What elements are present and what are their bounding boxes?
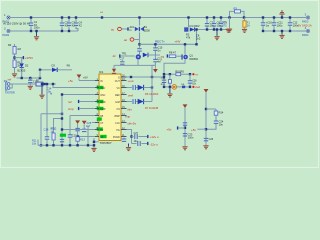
capacitor C10 (bulk out) <box>261 16 273 32</box>
diode D4 <box>143 53 160 58</box>
resistor R5 <box>13 60 23 73</box>
svg-text:SS: SS <box>100 136 104 139</box>
svg-text:ac: ac <box>124 38 128 42</box>
svg-text:C17: C17 <box>120 58 125 61</box>
capacitor C2 <box>60 16 69 32</box>
svg-text:C18: C18 <box>44 127 49 131</box>
svg-text:IC1: IC1 <box>99 70 104 74</box>
LED (orange circle) <box>172 85 177 90</box>
left pin stubs <box>95 81 99 137</box>
svg-text:100u: 100u <box>277 24 283 28</box>
wire: bus corner up into clamp <box>196 30 198 45</box>
AC port label 1 <box>111 26 135 32</box>
IC U1 body <box>99 70 121 145</box>
resistor R10 on x169.9 <box>161 74 172 87</box>
svg-text:47k: 47k <box>186 35 191 39</box>
red node sense end <box>192 73 198 76</box>
branch x206: flag + R + C + ground <box>191 89 224 149</box>
svg-text:+out: +out <box>128 79 134 83</box>
wire: pin row y94.5 long vertical <box>62 95 95 146</box>
svg-text:-12v o: -12v o <box>150 142 159 146</box>
ground below IC right <box>126 144 131 151</box>
label DC+ red <box>113 52 135 59</box>
svg-text:RMP: RMP <box>114 115 120 118</box>
svg-text:BZX55: BZX55 <box>17 69 25 73</box>
svg-text:+375V: +375V <box>25 56 33 60</box>
capacitor C13 <box>28 78 39 89</box>
capacitor C9 <box>219 16 228 30</box>
right pin stubs <box>121 77 127 137</box>
capacitor C18 <box>44 127 50 146</box>
vertical x152 connects diode rows up to snubber node <box>152 65 155 87</box>
svg-text:PAD4: PAD4 <box>302 34 309 37</box>
ground above top rail <box>279 11 284 19</box>
wire rect+ bus <box>140 43 197 45</box>
svg-text:R13: R13 <box>80 137 85 141</box>
svg-text:1M: 1M <box>17 47 21 51</box>
capacitor C19 <box>68 133 77 146</box>
row out1: cap + red label <box>132 132 160 143</box>
bus wire <box>38 144 94 146</box>
svg-text:D2: D2 <box>25 63 29 67</box>
svg-text:TOP250Y: TOP250Y <box>100 141 112 145</box>
svg-text:RT: RT <box>100 129 104 132</box>
MOSFET Q1 <box>181 43 198 61</box>
ground IC bottom pin <box>0 0 1 1</box>
clamp box D5 (solid) <box>184 16 190 31</box>
ground under IC left <box>91 138 98 151</box>
capacitor C4 (jog to bottom rail) <box>74 16 83 31</box>
row 18: cap + diode <box>127 85 159 96</box>
svg-text:+HV: +HV <box>175 40 181 44</box>
wire: sense row y74.2 <box>164 73 190 75</box>
svg-text:REF: REF <box>115 94 120 97</box>
wire pin12 corner down <box>127 130 132 144</box>
branch x185: flag + caps + ground <box>167 104 194 149</box>
svg-text:R14: R14 <box>219 110 224 114</box>
wire: bridge B1 down <box>139 32 141 48</box>
svg-text:IRF840: IRF840 <box>189 57 198 61</box>
svg-text:B250: B250 <box>144 28 151 32</box>
svg-text:ref: ref <box>68 100 72 104</box>
vertical x190 with capacitor C28 <box>188 74 197 87</box>
node wire y78 <box>8 77 42 82</box>
wire vertical x88 <box>87 126 89 147</box>
ground bleeder <box>12 74 17 77</box>
fuse F1 (yellow) <box>242 18 250 33</box>
svg-text:dc: dc <box>113 54 117 58</box>
right pin numbers <box>122 75 125 137</box>
gate row: red label <box>161 54 168 58</box>
svg-text:100n: 100n <box>188 135 194 139</box>
capacitor C11 <box>272 16 283 32</box>
svg-text:CT: CT <box>100 122 104 125</box>
capacitor C5 on primary drop <box>137 49 141 55</box>
pin7 row: flags and caps <box>75 120 95 137</box>
svg-text:GND: GND <box>100 101 106 104</box>
text label under IC ground <box>0 0 1 1</box>
connector pin X1-1 <box>3 13 11 23</box>
svg-text:PGND: PGND <box>113 136 120 139</box>
svg-text:ilim: ilim <box>128 107 133 111</box>
svg-text:IN 110-230V @ 50 Hz: IN 110-230V @ 50 Hz <box>3 21 31 25</box>
wire LED row y86.9 <box>164 86 190 88</box>
svg-text:CMP: CMP <box>100 108 106 111</box>
output connector pin 4 <box>296 26 310 37</box>
svg-text:D7 1N4148: D7 1N4148 <box>145 106 159 110</box>
svg-text:TASTER: TASTER <box>5 92 15 95</box>
svg-text:R3: R3 <box>234 6 238 10</box>
capacitor C22 below IC right <box>122 138 126 142</box>
bridge rectifier B1 <box>135 25 151 32</box>
svg-text:D3: D3 <box>52 63 56 67</box>
wire: long run to IC pin (y87.5) <box>53 84 95 88</box>
svg-text:+5V GND 2A: +5V GND 2A <box>297 23 312 27</box>
svg-text:OSC: OSC <box>100 94 105 97</box>
svg-text:+12v o: +12v o <box>150 135 159 139</box>
svg-text:+5v: +5v <box>68 79 73 83</box>
svg-text:+u: +u <box>100 11 104 14</box>
IC pin names left column <box>100 80 106 139</box>
svg-text:FB: FB <box>100 115 103 118</box>
svg-text:275: 275 <box>222 24 227 27</box>
resistor R8 gate <box>169 51 182 58</box>
ground center snubber <box>214 28 219 39</box>
power flag on top rail <box>100 11 104 18</box>
left pin numbers <box>97 78 99 137</box>
svg-text:PG: PG <box>116 129 120 132</box>
red node LED row end <box>192 85 200 89</box>
wire clamp row <box>195 29 227 31</box>
svg-text:D1 600V: D1 600V <box>190 24 200 28</box>
capacitor C12 <box>288 16 299 32</box>
svg-text:C28: C28 <box>192 80 197 82</box>
svg-text:IN: IN <box>100 80 103 83</box>
IC pin names right column <box>113 76 120 139</box>
ground below bottom rail <box>279 30 284 39</box>
pin9 wire <box>77 135 95 137</box>
capacitor C8 <box>212 16 222 30</box>
diode D8 on LED row <box>181 84 185 88</box>
red label pin4 <box>68 100 95 104</box>
svg-text:+5v: +5v <box>167 128 172 132</box>
wire output bottom rail <box>263 30 296 32</box>
svg-text:R8 47: R8 47 <box>169 51 176 55</box>
ground red at clamp end <box>226 29 231 32</box>
svg-text:clk+5v: clk+5v <box>128 121 137 125</box>
bus left label <box>32 140 38 146</box>
svg-text:RECT+: RECT+ <box>155 39 165 43</box>
svg-text:2A: 2A <box>247 25 250 28</box>
ground LED row <box>167 87 172 97</box>
green highlight pin names (left) <box>97 86 104 89</box>
diode D3 row <box>39 63 72 78</box>
AC port label 2 <box>124 38 140 42</box>
pin6 wire corner down to C19 <box>70 116 95 135</box>
connector pin X1-2 <box>3 26 11 37</box>
green net label on x62 <box>60 134 66 147</box>
svg-text:10n: 10n <box>219 122 224 126</box>
red label pin1 <box>68 79 95 83</box>
svg-text:4n7: 4n7 <box>157 60 162 63</box>
svg-text:C26: C26 <box>209 138 214 141</box>
ground sense <box>39 83 44 98</box>
capacitor C17 above IC <box>120 58 125 66</box>
resistor R9 on sense row <box>175 70 184 75</box>
wire y77 from IC pin to x164 <box>127 76 165 78</box>
wire: L-route down <box>41 113 62 115</box>
svg-text:R4: R4 <box>8 43 12 47</box>
svg-text:CLK: CLK <box>115 122 120 125</box>
svg-text:OUT: OUT <box>115 80 121 83</box>
svg-text:PAD2: PAD2 <box>3 33 10 37</box>
svg-text:1m: 1m <box>266 24 270 28</box>
svg-text:CS: CS <box>116 108 120 111</box>
capacitor C3 <box>67 16 76 32</box>
wire above IC <box>114 64 155 66</box>
row 16: cap + diode <box>127 99 159 110</box>
resistor R13 <box>76 137 85 147</box>
svg-text:R7: R7 <box>36 78 40 82</box>
svg-text:C27: C27 <box>134 132 139 135</box>
wire sense row y84 <box>10 83 56 85</box>
maroon diode above IC <box>112 65 116 73</box>
svg-text:+5V: +5V <box>83 76 88 80</box>
svg-text:+5v: +5v <box>191 128 196 132</box>
svg-text:vref: vref <box>128 93 133 97</box>
svg-text:D: D <box>118 76 120 79</box>
wire: source down and left <box>164 59 185 87</box>
wire bottom rail input <box>10 30 78 32</box>
capacitor C1 (X2 line cap) <box>29 16 40 32</box>
ground at input <box>34 30 39 40</box>
capacitor C16 on x164 <box>162 80 166 82</box>
svg-text:VC: VC <box>116 87 120 90</box>
diode D1 clamp <box>190 24 200 32</box>
svg-text:VCC: VCC <box>100 87 105 90</box>
svg-text:R6: R6 <box>67 63 71 67</box>
row out2: cap + red label <box>132 141 159 146</box>
svg-text:X2: X2 <box>79 24 83 28</box>
resistor R4 <box>8 43 21 60</box>
red label pin5 <box>68 107 95 111</box>
wire top rail L <box>10 17 296 19</box>
transformer bottom drop <box>137 60 139 65</box>
varistor label + ground below rail <box>222 18 232 33</box>
resistor R7 on wire <box>36 78 46 86</box>
svg-text:TR1: TR1 <box>122 52 127 56</box>
wire: vertical from sense row down <box>46 84 48 137</box>
snubber cap C15 <box>153 43 163 55</box>
transformer primary circle <box>136 54 141 59</box>
node +375V stub <box>13 56 33 60</box>
pin8 wire from long vertical <box>61 128 95 130</box>
svg-text:+led: +led <box>195 85 201 89</box>
svg-text:PAD3: PAD3 <box>302 20 309 23</box>
wire: drop to bridge B1 <box>139 18 141 26</box>
zener D2 <box>17 58 28 78</box>
svg-text:ac: ac <box>111 27 115 31</box>
svg-text:ILIM: ILIM <box>115 101 120 104</box>
resistor R12 <box>51 126 57 146</box>
svg-text:100n: 100n <box>34 26 40 30</box>
power flag +5V above pin1 <box>77 75 88 81</box>
resistor R3 jumper over rail <box>228 6 245 18</box>
wire: second L-route <box>54 117 64 133</box>
svg-text:R9 0R5: R9 0R5 <box>175 70 184 73</box>
capacitor C21 snubber lower <box>153 55 162 73</box>
capacitor C7 <box>205 16 215 30</box>
svg-text:rmp: rmp <box>125 114 130 118</box>
svg-text:ref: ref <box>8 77 12 81</box>
svg-text:cmp: cmp <box>68 107 74 111</box>
svg-text:R12: R12 <box>52 126 57 130</box>
svg-text:2n2: 2n2 <box>196 37 201 41</box>
output connector pin 3 <box>296 12 310 23</box>
connector block TP <box>4 80 15 95</box>
